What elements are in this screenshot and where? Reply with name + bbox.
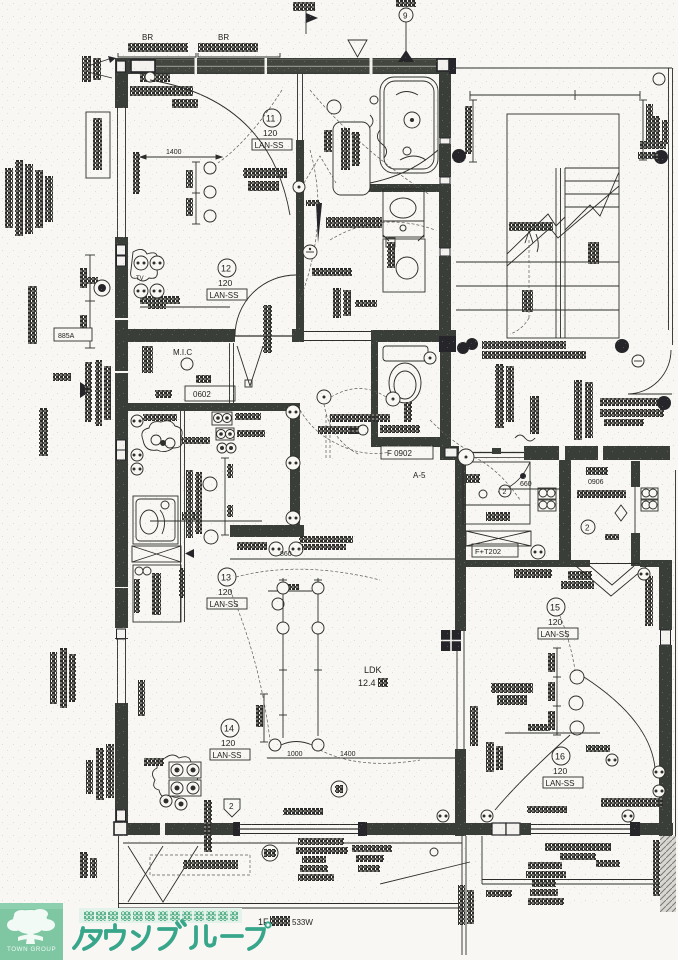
- wall left column x115-128: [115, 58, 128, 832]
- label room1 name: [293, 181, 305, 193]
- circled 13 + LAN: [207, 568, 247, 609]
- balcony spec text block: [296, 838, 348, 881]
- wall kitchen/hall x287-300 y403-537: [127, 403, 304, 537]
- vertical labels room2 left: [470, 706, 478, 746]
- big wiring arc room1: [150, 80, 290, 215]
- AC label right balcony: [545, 843, 611, 860]
- stair dim line left: [469, 100, 477, 162]
- long dash: [222, 934, 242, 938]
- vertical spec text block upper: [5, 160, 53, 236]
- circled 16 + LAN: [543, 747, 583, 788]
- vertical label right of stairs: [652, 116, 660, 146]
- pendant diamond: [615, 505, 627, 521]
- ta: [74, 928, 83, 948]
- fire circle marker left: [82, 277, 110, 296]
- labels above kitchen wall: [330, 414, 390, 422]
- door arc room1 to corridor: [235, 275, 296, 336]
- wall corridor bottom y446-460 (x440-672): [440, 446, 670, 460]
- bathtub: [367, 77, 438, 173]
- stair hall boundary thin lines: [456, 68, 673, 345]
- logo tree: [7, 909, 55, 944]
- porch label box: [54, 328, 92, 341]
- balcony diagonals: [128, 846, 198, 902]
- dim 1700: [505, 732, 600, 734]
- vertical label gaiheki: [28, 286, 37, 344]
- wall central x439-451: [439, 74, 456, 446]
- entry texts top: [482, 341, 566, 349]
- circled switch right of toilet door: [424, 352, 436, 364]
- dim 990 vertical: [260, 694, 268, 742]
- door wedge black: [316, 203, 322, 243]
- ru: [191, 927, 196, 948]
- door peephole circle top right: [653, 73, 665, 85]
- circled 11 + LAN label: [252, 109, 292, 150]
- gu: [159, 929, 176, 949]
- shield 2 marker: [224, 799, 240, 817]
- top-left arrow label: [82, 56, 116, 82]
- outlets room2: [638, 568, 650, 580]
- wall horizontal y329-342 (room1 bottom): [115, 329, 456, 342]
- dashed wiring arcs upper: [310, 90, 430, 195]
- dim 1400 room1: [140, 155, 222, 159]
- entrance door arc: [628, 350, 671, 394]
- outlet pair boxes genkan: [538, 488, 658, 511]
- 1F caption: [258, 916, 313, 927]
- svg-text:TOWN GROUP: TOWN GROUP: [7, 946, 56, 953]
- gas outlet cluster LDK bottom: [152, 755, 201, 810]
- fire triangle left: [53, 373, 92, 398]
- n: [133, 932, 139, 936]
- label toilet vertical: [404, 402, 412, 422]
- curtain rail label vertical: [133, 152, 140, 194]
- outlets above bottom wall: [437, 810, 449, 822]
- circled 12 + LAN: [207, 259, 247, 300]
- washing machine: [383, 235, 425, 292]
- logo green square: [0, 903, 63, 960]
- bath squiggly hose: [377, 130, 386, 158]
- vertical spec block mid: [85, 360, 111, 426]
- monohoshi label dashed box: [150, 855, 250, 875]
- range hood cloud: [142, 421, 182, 452]
- stair break zigzag: [507, 172, 619, 266]
- fire flag left: [293, 2, 318, 34]
- label row above diamond: [577, 490, 626, 498]
- dim 1966: [182, 512, 201, 520]
- reinforcement label bottom right: [601, 798, 663, 807]
- dim 860 line: [230, 558, 455, 560]
- label kankyo small: [312, 268, 352, 276]
- vertical label tesuri bottom-left: [204, 800, 212, 852]
- wall toilet left x371-378 and toilet bottom: [371, 341, 440, 447]
- vertical FL labels right of counter: [186, 470, 193, 538]
- u: [113, 925, 117, 930]
- small labels near washer: [355, 300, 377, 307]
- vertical label AC bracket lower: [86, 748, 104, 800]
- room2 name: [491, 683, 533, 693]
- label DK2303 vertical: [333, 288, 341, 318]
- outlets entry: [457, 342, 469, 354]
- wall LDK right x455-466: [441, 460, 466, 836]
- wall genkan divider x559-571: [559, 460, 571, 560]
- corridor outlet circles on kitchen wall: [286, 405, 300, 525]
- curtain rail labels bottom: [283, 808, 323, 815]
- stair dim line right: [639, 100, 647, 160]
- label construction top-left: [130, 72, 198, 108]
- dim vertical 825/825: [85, 255, 95, 348]
- svg-text:533W: 533W: [292, 918, 313, 927]
- kitchen counter + sink: [133, 496, 178, 544]
- wall right closet divider x631-640: [631, 461, 640, 566]
- stair treads upper: [565, 168, 619, 207]
- fire circle balcony: [262, 845, 278, 861]
- window left lower (y638-704): [115, 638, 128, 704]
- label sen-men-dashii-shitsu: [326, 217, 382, 228]
- wall right outer lower x659-672: [659, 567, 672, 836]
- BR label 1: [118, 33, 196, 57]
- stair up arrow dashed: [510, 231, 533, 334]
- circled 9 with pole and arrow: [396, 0, 416, 62]
- TV outlet cluster room1 left: [131, 249, 166, 309]
- shoe shelf label box: [472, 544, 518, 557]
- spec text block right balcony: [526, 862, 566, 905]
- genkan door arc small: [498, 462, 530, 492]
- stair shaft rect: [507, 114, 619, 338]
- toilet shelf label box: [381, 446, 433, 459]
- label blobs upper LDK: [299, 536, 353, 543]
- kazari circle: [331, 781, 347, 797]
- stair treads lower: [456, 262, 619, 310]
- dashed arcs LDK: [236, 569, 380, 580]
- circled switch hall: [458, 449, 474, 465]
- downlights room2: [570, 670, 584, 684]
- circled 2 switch: [581, 520, 595, 534]
- label madotsuke + arrow: [509, 222, 553, 252]
- vertical label genchi: [39, 408, 48, 456]
- vertical text columns entry: [495, 364, 504, 428]
- fire label top-right outlet: [638, 141, 668, 164]
- closet V door: [576, 566, 647, 596]
- logo tagline blobs: [84, 911, 238, 921]
- vertical spec block lower: [50, 648, 76, 708]
- wall closet bottom y560-567 x456-672: [456, 560, 672, 567]
- fridge space: [133, 565, 181, 622]
- kitchen wall outlets left: [131, 415, 143, 427]
- outlets below kitchen wall: [269, 542, 283, 556]
- K-upper shelf label right: [586, 467, 608, 475]
- circled theta washroom: [303, 245, 317, 259]
- genkan floor: [463, 462, 530, 524]
- logo tagline wash: [79, 908, 242, 923]
- BR label 2: [198, 33, 280, 57]
- dim 1000 1400: [267, 757, 455, 759]
- entry right texts: [600, 398, 658, 406]
- washbasin counter: [383, 189, 424, 237]
- bottom margin small label: [80, 852, 88, 878]
- circled 15 + LAN: [538, 598, 578, 639]
- ceiling lights pair LDK: [269, 739, 324, 751]
- circled 14 + LAN: [210, 719, 250, 760]
- wall bath/wash divider y184-192: [362, 184, 451, 192]
- wiring curves room2: [584, 677, 655, 768]
- logo katakana TOWN GROUP (town group): [74, 921, 271, 949]
- downlight column room1: [186, 162, 216, 224]
- counter X box: [132, 546, 181, 562]
- pu: [247, 929, 264, 949]
- hood duct dashed vertical: [326, 415, 330, 460]
- wall top (y58-74 x115-456 with window band): [115, 58, 456, 74]
- tick marks hall top: [570, 90, 580, 100]
- window left upper (y107-238): [115, 107, 128, 238]
- right wall hatch band: [660, 836, 676, 912]
- dim column room2: [553, 648, 561, 735]
- closet labels top: [514, 569, 552, 578]
- vertical text at balcony divider: [458, 885, 465, 925]
- label kabe (wall) blobs in stairs: [588, 242, 599, 264]
- wall washroom left x296-304: [296, 74, 304, 336]
- corridor light + dashes: [317, 390, 331, 404]
- wall bottom y822-836: [114, 822, 673, 836]
- white triangle marker: [348, 40, 367, 57]
